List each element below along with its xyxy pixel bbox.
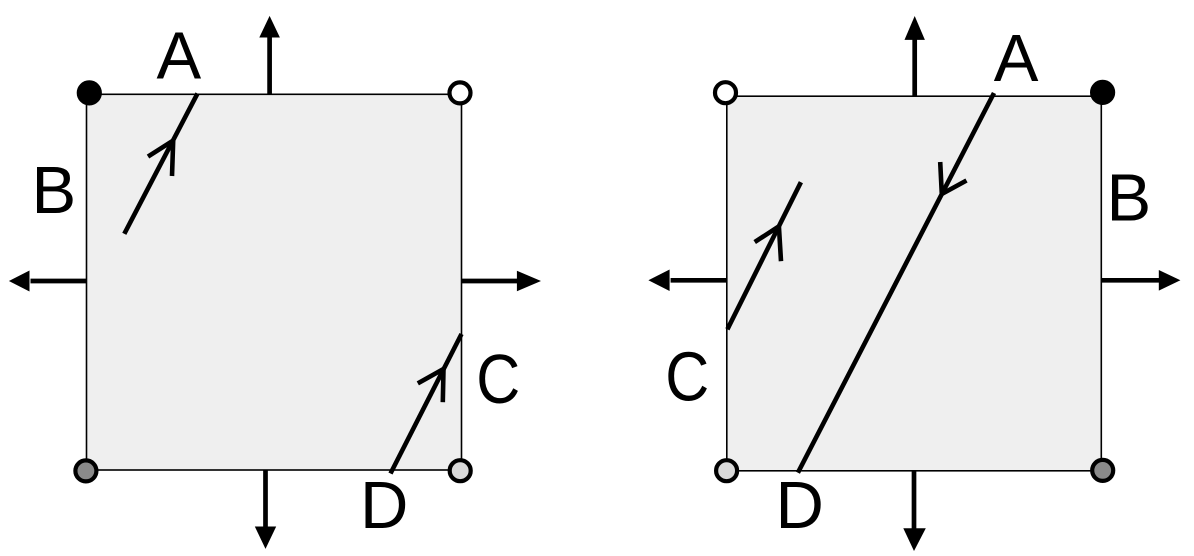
svg-text:C: C bbox=[476, 340, 520, 418]
svg-text:C: C bbox=[665, 338, 709, 416]
svg-text:A: A bbox=[994, 21, 1039, 96]
svg-text:D: D bbox=[360, 468, 408, 543]
svg-text:D: D bbox=[776, 468, 824, 543]
svg-text:A: A bbox=[157, 19, 202, 94]
svg-text:B: B bbox=[32, 153, 77, 228]
svg-text:B: B bbox=[1106, 161, 1151, 236]
